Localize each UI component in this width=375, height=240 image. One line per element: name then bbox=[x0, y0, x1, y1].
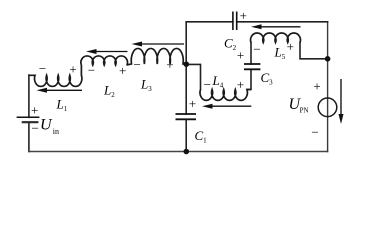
svg-text:+: + bbox=[287, 39, 294, 54]
svg-text:in: in bbox=[53, 127, 59, 136]
wire node A to L4 bbox=[186, 64, 200, 89]
wire C3 to L5 bbox=[250, 43, 252, 65]
svg-text:C1: C1 bbox=[195, 128, 208, 145]
junction node right bbox=[325, 56, 331, 62]
capacitor C1 plates bbox=[176, 114, 197, 119]
wire L5 right leg bbox=[300, 43, 328, 59]
svg-text:−: − bbox=[134, 57, 141, 72]
capacitor C2 plates bbox=[233, 12, 237, 31]
svg-text:PN: PN bbox=[300, 106, 309, 114]
svg-text:L3: L3 bbox=[140, 77, 152, 94]
inductor L2 bbox=[81, 56, 128, 65]
current arrow under L1 bbox=[37, 88, 83, 93]
battery Uin plates bbox=[17, 117, 40, 122]
inductor L4 bbox=[200, 90, 251, 101]
junction node A bbox=[184, 61, 190, 67]
wire left vertical bbox=[28, 75, 30, 152]
current arrow over L2 bbox=[86, 49, 128, 54]
junction node bottom bbox=[184, 149, 190, 155]
svg-text:+: + bbox=[240, 8, 247, 23]
svg-text:−: − bbox=[88, 63, 95, 78]
svg-text:+: + bbox=[237, 48, 244, 63]
inductor L5 bbox=[251, 33, 301, 42]
svg-text:+: + bbox=[313, 79, 320, 94]
svg-text:−: − bbox=[311, 125, 318, 140]
svg-text:+: + bbox=[69, 62, 76, 77]
svg-text:+: + bbox=[237, 77, 244, 92]
svg-text:−: − bbox=[39, 61, 46, 76]
inductor L3 bbox=[126, 48, 186, 65]
inductor L1 bbox=[29, 65, 82, 86]
current arrow right of UPN bbox=[339, 79, 344, 124]
svg-text:+: + bbox=[119, 63, 126, 78]
svg-text:+: + bbox=[189, 96, 196, 111]
svg-text:C2: C2 bbox=[224, 36, 237, 53]
svg-text:−: − bbox=[253, 41, 260, 56]
wire L4 to C3 bbox=[248, 69, 252, 89]
svg-text:−: − bbox=[32, 120, 39, 135]
capacitor C3 plates bbox=[244, 64, 260, 69]
svg-text:−: − bbox=[204, 77, 211, 92]
source UPN circle bbox=[318, 98, 337, 117]
wire bottom bbox=[29, 151, 328, 153]
svg-text:L2: L2 bbox=[103, 83, 115, 100]
svg-text:+: + bbox=[166, 57, 173, 72]
svg-text:L4: L4 bbox=[212, 73, 224, 90]
wire middle vertical bbox=[185, 22, 187, 152]
current arrow under L4 bbox=[202, 104, 251, 109]
wire right vertical bbox=[327, 22, 329, 152]
svg-text:+: + bbox=[31, 103, 38, 118]
wire top bbox=[186, 21, 327, 23]
svg-text:U: U bbox=[40, 117, 53, 134]
svg-text:L1: L1 bbox=[56, 97, 68, 114]
svg-text:L5: L5 bbox=[274, 45, 286, 62]
current arrow over L5 bbox=[251, 24, 301, 29]
current arrow over L3 bbox=[132, 42, 185, 47]
svg-text:C3: C3 bbox=[261, 70, 274, 87]
